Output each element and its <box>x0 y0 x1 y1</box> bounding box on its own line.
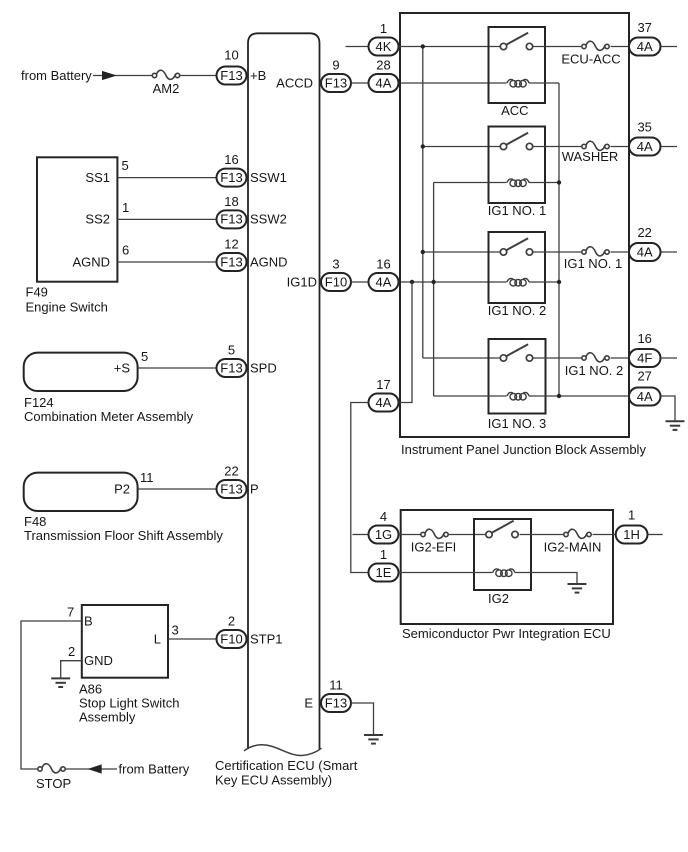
svg-text:IG1 NO. 2: IG1 NO. 2 <box>565 363 624 378</box>
svg-text:F13: F13 <box>325 75 347 90</box>
connector 4A pin 35 <box>629 138 661 156</box>
svg-text:1: 1 <box>122 200 129 215</box>
svg-text:GND: GND <box>84 653 113 668</box>
instrument panel junction block box <box>400 13 629 437</box>
connector F13 pin P <box>217 480 247 498</box>
svg-text:2: 2 <box>228 614 235 629</box>
svg-text:Transmission Floor Shift Assem: Transmission Floor Shift Assembly <box>24 528 223 543</box>
svg-text:F13: F13 <box>220 68 242 83</box>
svg-text:1G: 1G <box>375 527 392 542</box>
svg-text:IG1 NO. 1: IG1 NO. 1 <box>488 203 547 218</box>
wire switch feed to IG1 NO.1 switch <box>423 146 501 148</box>
svg-text:6: 6 <box>122 243 129 258</box>
svg-text:4A: 4A <box>637 39 653 54</box>
relay IG2 coil <box>493 569 515 577</box>
svg-text:4F: 4F <box>637 350 652 365</box>
ground (junction block) <box>666 421 685 430</box>
wire P2 to P <box>138 488 217 490</box>
label F124 Combination Meter Assembly <box>24 395 194 424</box>
wire switch feed to IG1 NO.3 switch <box>423 357 501 359</box>
wire IG1 NO.3 switch to IG1 NO.2 fuse <box>533 357 582 359</box>
relay IG1 NO.1 switch contact <box>500 133 532 150</box>
fuse AM2 <box>152 70 179 79</box>
junction dot coil branch / IG1D row <box>431 280 435 284</box>
fuse IG1 NO. 1 <box>582 247 609 256</box>
relay IG1 NO.1 box <box>489 127 546 204</box>
wire stub right of 4A-35 <box>661 146 678 148</box>
svg-text:F13: F13 <box>220 481 242 496</box>
connector F13 pin SPD <box>217 359 247 377</box>
svg-text:F13: F13 <box>220 360 242 375</box>
svg-text:4A: 4A <box>376 395 392 410</box>
label A86 Stop Light Switch Assembly <box>79 682 179 725</box>
wire ACC switch to ECU-ACC fuse <box>533 46 582 48</box>
svg-text:4K: 4K <box>376 39 392 54</box>
wire stub to 1G <box>353 534 369 536</box>
wire 4A-27 to ground <box>661 396 676 421</box>
svg-text:5: 5 <box>141 349 148 364</box>
svg-text:4A: 4A <box>637 139 653 154</box>
ground (IG2 coil) <box>568 584 587 593</box>
relay IG1 NO.2 coil <box>507 278 529 286</box>
label F48 Transmission Floor Shift Assembly <box>24 514 223 543</box>
relay IG1 NO.2 switch contact <box>500 238 532 255</box>
wire rail coil return (x559) <box>558 83 560 396</box>
svg-text:4A: 4A <box>376 274 392 289</box>
svg-text:9: 9 <box>332 58 339 73</box>
svg-text:5: 5 <box>122 158 129 173</box>
wire ACCD to 4A <box>351 82 369 84</box>
wire rail coil branch (x433.6) <box>433 183 435 397</box>
connector 4A pin 16 <box>369 273 399 291</box>
wire ACC coil to common coil rail <box>529 82 559 84</box>
relay ACC box <box>489 27 546 103</box>
arrow from Battery (points left) <box>88 764 102 773</box>
svg-text:4A: 4A <box>376 75 392 90</box>
svg-text:4: 4 <box>380 509 387 524</box>
wire stub to 4K <box>346 46 369 48</box>
combination meter F124 box <box>24 353 138 391</box>
svg-text:12: 12 <box>224 237 238 252</box>
svg-text:Instrument Panel Junction Bloc: Instrument Panel Junction Block Assembly <box>401 442 646 457</box>
svg-text:F48: F48 <box>24 514 46 529</box>
fuse IG2-EFI <box>421 529 448 538</box>
wire SS2 <box>117 218 216 220</box>
wire 4A-17 to 1E <box>351 403 369 573</box>
wire SS1 <box>117 177 216 179</box>
wire IG2-EFI fuse to IG2 relay switch <box>449 534 487 536</box>
junction dot rail / IG1 NO.1 coil <box>557 180 561 184</box>
ground (stop light switch) <box>51 678 70 687</box>
label F49 Engine Switch <box>26 285 108 315</box>
svg-text:16: 16 <box>376 257 390 272</box>
svg-text:IG2: IG2 <box>488 591 509 606</box>
connector 4A pin 28 <box>369 74 399 92</box>
wire L to STP1 <box>168 638 217 640</box>
junction dot rail / IG1 NO.2 coil <box>557 280 561 284</box>
wire WASHER fuse to 4A-35 <box>611 146 630 148</box>
svg-text:SS1: SS1 <box>85 170 110 185</box>
svg-text:B: B <box>84 613 93 628</box>
junction dot switch feed / IG1 NO.2 <box>421 250 425 254</box>
relay IG1 NO.3 switch contact <box>500 344 532 361</box>
svg-text:1E: 1E <box>376 565 392 580</box>
relay IG1 NO.3 coil <box>507 392 529 400</box>
svg-text:IG1 NO. 1: IG1 NO. 1 <box>564 256 623 271</box>
svg-text:22: 22 <box>637 225 651 240</box>
svg-text:4A: 4A <box>637 389 653 404</box>
wire 1G to IG2-EFI fuse <box>399 534 421 536</box>
wire IG1 NO.3 coil to 4A-27 <box>529 395 629 397</box>
engine switch F49 box <box>37 157 117 281</box>
connector 1E pin 1 <box>369 564 399 582</box>
relay IG1 NO.3 box <box>489 339 546 414</box>
svg-text:F13: F13 <box>325 695 347 710</box>
wire stub right of 4F-16 <box>661 357 678 359</box>
wire stub right of 4A-37 <box>661 46 678 48</box>
svg-text:ACCD: ACCD <box>276 75 313 90</box>
connector 4A pin 37 <box>629 38 661 56</box>
wire STOP fuse to battery arrow <box>66 768 118 770</box>
svg-text:IG1 NO. 2: IG1 NO. 2 <box>488 303 547 318</box>
svg-text:F13: F13 <box>220 254 242 269</box>
svg-text:STP1: STP1 <box>250 631 283 646</box>
svg-text:4A: 4A <box>637 244 653 259</box>
wire branch to 4A-17 (x412) <box>399 282 413 403</box>
junction dot 17-branch / IG1D row <box>410 280 414 284</box>
wire GND to ground <box>61 661 82 679</box>
svg-text:10: 10 <box>224 48 238 63</box>
svg-text:1: 1 <box>380 21 387 36</box>
arrow from Battery (points right) <box>102 71 117 80</box>
svg-text:5: 5 <box>228 343 235 358</box>
svg-text:Semiconductor Pwr Integration: Semiconductor Pwr Integration ECU <box>402 626 611 641</box>
svg-text:STOP: STOP <box>36 776 71 791</box>
wire IG2-MAIN fuse to 1H <box>593 534 616 536</box>
wire IG1 NO.1 switch to WASHER fuse <box>533 146 582 148</box>
wire 4K to ACC relay switch <box>399 46 502 48</box>
svg-text:18: 18 <box>224 194 238 209</box>
relay ACC coil <box>507 79 529 87</box>
wire IG1 NO.1 coil left branch <box>434 182 507 184</box>
svg-text:1H: 1H <box>623 527 640 542</box>
svg-text:AGND: AGND <box>250 254 288 269</box>
fuse IG2-MAIN <box>564 529 591 538</box>
svg-text:16: 16 <box>637 331 651 346</box>
ECU U-ECU Certification ECU (Smart Key ECU Assembly) body <box>244 33 322 755</box>
wire AGND <box>117 261 216 263</box>
fuse STOP <box>38 764 65 773</box>
svg-text:22: 22 <box>224 464 238 479</box>
svg-text:Assembly: Assembly <box>79 710 136 725</box>
wire IG1 NO.2 coil to rail <box>529 281 559 283</box>
wire 4A-16 to IG1 NO.2 relay coil <box>399 281 507 283</box>
wire IG2 switch to IG2-MAIN fuse <box>520 534 564 536</box>
ground (ECU pin E) <box>364 735 383 744</box>
junction dot rail / IG1 NO.3 coil <box>557 394 561 398</box>
svg-text:+S: +S <box>114 360 131 375</box>
relay IG1 NO.2 box <box>489 232 546 303</box>
svg-text:Certification ECU (Smart: Certification ECU (Smart <box>215 758 358 773</box>
svg-text:Key ECU Assembly): Key ECU Assembly) <box>215 772 332 787</box>
svg-text:7: 7 <box>67 605 74 620</box>
svg-text:3: 3 <box>172 623 179 638</box>
svg-text:F124: F124 <box>24 395 54 410</box>
wire 4A-28 to ACC relay coil <box>399 82 507 84</box>
svg-text:2: 2 <box>68 644 75 659</box>
wire IG1 NO.2 switch to IG1 NO.1 fuse <box>533 251 582 253</box>
connector F13 pin AGND <box>217 253 247 271</box>
svg-text:WASHER: WASHER <box>562 149 619 164</box>
svg-text:P2: P2 <box>114 481 130 496</box>
label Certification ECU (Smart Key ECU Assembly) <box>215 758 358 787</box>
svg-text:AGND: AGND <box>72 254 110 269</box>
wire IG2 coil to ground <box>515 573 577 584</box>
svg-text:27: 27 <box>637 369 651 384</box>
relay ACC switch contact <box>500 33 532 50</box>
svg-text:F49: F49 <box>26 285 48 300</box>
svg-text:IG2-MAIN: IG2-MAIN <box>544 540 602 555</box>
svg-text:IG1 NO. 3: IG1 NO. 3 <box>488 416 547 431</box>
wire AM2 to +B connector <box>180 75 217 77</box>
svg-text:A86: A86 <box>79 682 102 697</box>
svg-text:L: L <box>154 631 161 646</box>
wire IG1 NO.1 fuse to 4A-22 <box>611 251 630 253</box>
wire IG1 NO.3 coil left branch <box>434 395 507 397</box>
svg-text:ECU-ACC: ECU-ACC <box>561 52 620 67</box>
wire switch feed to IG1 NO.2 switch <box>423 251 501 253</box>
fuse WASHER <box>582 141 609 150</box>
connector F13 pin E <box>321 694 351 712</box>
wire stub right of 4A-22 <box>661 251 678 253</box>
svg-text:28: 28 <box>376 58 390 73</box>
svg-text:Stop Light Switch: Stop Light Switch <box>79 696 179 711</box>
svg-text:+B: +B <box>250 68 266 83</box>
svg-text:IG2-EFI: IG2-EFI <box>411 540 457 555</box>
wire IG1D to 4A <box>351 281 369 283</box>
wire IG1 NO.2 fuse to 4F-16 <box>611 357 630 359</box>
svg-text:from Battery: from Battery <box>119 761 190 776</box>
wire E to ground <box>351 703 374 735</box>
junction dot switch feed / ACC <box>421 44 425 48</box>
connector 1G pin 4 <box>369 526 399 544</box>
connector F13 pin SSW1 <box>217 169 247 187</box>
svg-text:ACC: ACC <box>501 103 528 118</box>
svg-text:SSW1: SSW1 <box>250 170 287 185</box>
svg-text:37: 37 <box>637 20 651 35</box>
semiconductor pwr integration ECU box <box>401 510 613 624</box>
svg-text:1: 1 <box>628 508 635 523</box>
svg-text:11: 11 <box>329 678 343 693</box>
svg-text:F10: F10 <box>325 274 347 289</box>
svg-text:from Battery: from Battery <box>21 68 92 83</box>
wire IG1 NO.1 coil to rail <box>529 182 559 184</box>
wire rail switch feed (x422.8) <box>422 47 424 359</box>
connector 4K pin 1 <box>369 38 399 56</box>
wire B to STOP fuse <box>21 621 82 769</box>
svg-text:17: 17 <box>376 377 390 392</box>
svg-text:F10: F10 <box>220 631 242 646</box>
svg-text:16: 16 <box>224 152 238 167</box>
svg-text:SS2: SS2 <box>85 212 110 227</box>
svg-text:Engine Switch: Engine Switch <box>26 300 108 315</box>
connector 4A pin 27 <box>629 388 661 406</box>
fuse IG1 NO. 2 <box>582 353 609 362</box>
svg-text:IG1D: IG1D <box>287 274 317 289</box>
fuse ECU-ACC <box>582 41 609 50</box>
connector 4A pin 22 <box>629 243 661 261</box>
svg-text:P: P <box>250 481 259 496</box>
relay IG2 switch contact <box>486 521 518 538</box>
connector F13 pin SSW2 <box>217 210 247 228</box>
svg-text:F13: F13 <box>220 170 242 185</box>
connector 4A pin 17 <box>369 394 399 412</box>
wire stub right of 1H <box>648 534 663 536</box>
relay IG2 box <box>474 519 531 590</box>
svg-text:E: E <box>304 695 313 710</box>
svg-text:SSW2: SSW2 <box>250 212 287 227</box>
wire 1E to IG2 coil <box>399 572 493 574</box>
relay IG1 NO.1 coil <box>507 179 529 187</box>
svg-text:1: 1 <box>380 547 387 562</box>
wire +S to SPD <box>138 367 217 369</box>
connector F10 pin STP1 <box>217 630 247 648</box>
wire from Battery to AM2 fuse <box>93 75 152 77</box>
svg-text:F13: F13 <box>220 212 242 227</box>
junction dot switch feed / IG1 NO.1 <box>421 144 425 148</box>
connector 1H pin 1 <box>616 526 648 544</box>
svg-text:AM2: AM2 <box>153 81 180 96</box>
stop light switch A86 box <box>82 605 168 678</box>
transmission floor shift F48 box <box>24 473 138 511</box>
svg-text:Combination Meter Assembly: Combination Meter Assembly <box>24 409 194 424</box>
wire ECU-ACC fuse to 4A-37 <box>611 46 630 48</box>
connector F13 pin +B <box>217 67 247 85</box>
connector F10 pin IG1D <box>321 273 351 291</box>
connector F13 pin ACCD <box>321 74 351 92</box>
svg-text:11: 11 <box>140 470 154 485</box>
connector 4F pin 16 <box>629 349 661 367</box>
svg-text:3: 3 <box>332 257 339 272</box>
svg-text:35: 35 <box>637 120 651 135</box>
svg-text:SPD: SPD <box>250 360 277 375</box>
